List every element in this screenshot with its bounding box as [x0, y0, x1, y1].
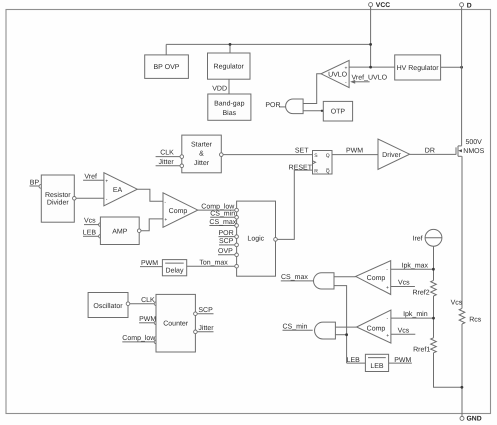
op-amp Comp Ipk_min: [357, 310, 391, 343]
wire Vref_UVLO arrow: [350, 73, 387, 83]
svg-text:POR: POR: [265, 102, 280, 109]
wire top Comp output to CS_max gate: [334, 276, 356, 278]
pin GND: [460, 415, 482, 422]
svg-text:UVLO: UVLO: [328, 71, 348, 78]
wire CS_min gate lower input from LEB: [335, 334, 346, 336]
svg-text:Bias: Bias: [222, 109, 236, 117]
wire LEB into AMP: [83, 229, 102, 238]
resistor Rref1: [413, 338, 436, 354]
svg-text:Delay: Delay: [166, 266, 184, 274]
svg-text:LEB: LEB: [83, 229, 97, 236]
wire HV Regulator to D rail: [441, 66, 462, 68]
wire OVP stub to Logic: [218, 248, 235, 255]
op-amp Comp Ipk_max: [356, 261, 391, 295]
wire Vcs stub bottom Comp: [391, 327, 415, 334]
wire CS_min stub to Logic: [210, 210, 235, 218]
svg-text:Iref: Iref: [413, 234, 423, 242]
wire VDD net: [212, 79, 229, 94]
wire PWM net to Driver: [332, 148, 378, 155]
wire Comp_low stub into Counter: [122, 334, 158, 344]
svg-text:+: +: [386, 285, 389, 291]
svg-text:R: R: [314, 169, 318, 175]
svg-text:Vcs: Vcs: [84, 218, 96, 225]
wire Ton_max from Delay to Logic: [187, 260, 235, 267]
svg-text:Vref_UVLO: Vref_UVLO: [352, 73, 388, 81]
svg-text:SET: SET: [295, 148, 309, 155]
svg-text:Oscillator: Oscillator: [93, 302, 123, 310]
wire CS_max gate lower input from LEB: [334, 286, 347, 364]
svg-text:Driver: Driver: [382, 151, 401, 159]
svg-text:Comp: Comp: [367, 326, 386, 333]
svg-text:Comp: Comp: [169, 208, 188, 215]
svg-text:CS_max: CS_max: [209, 219, 236, 226]
svg-text:BP OVP: BP OVP: [154, 64, 180, 71]
wire D rail: [461, 7, 463, 146]
block LEB: [365, 354, 388, 371]
block Starter &amp; Jitter: [182, 135, 222, 173]
wire Rref2 to Rref1: [433, 296, 435, 338]
svg-text:Q̅: Q̅: [326, 168, 330, 175]
wire PWM into Delay: [140, 260, 162, 267]
gate CS_min AND: [315, 322, 336, 339]
svg-text:Jitter: Jitter: [159, 158, 175, 166]
wire bottom Comp output to CS_min gate: [335, 326, 356, 328]
wire AMP output to Comp: [137, 219, 163, 233]
wire PWM stub into Counter: [139, 316, 158, 325]
svg-text:CS_max: CS_max: [281, 274, 308, 281]
svg-text:OVP: OVP: [218, 248, 233, 255]
wire Ipk_max net: [391, 261, 434, 269]
node LEB branch junction: [345, 333, 348, 336]
wire drop to Regulator: [229, 44, 231, 53]
op-amp Driver: [378, 139, 410, 169]
wire SET net: [220, 148, 313, 157]
wire drop to BP OVP: [165, 44, 167, 55]
svg-text:CS_min: CS_min: [210, 210, 235, 218]
svg-text:+: +: [345, 65, 348, 71]
wire Jitter stub out of Counter: [194, 324, 215, 334]
svg-text:&: &: [199, 151, 204, 158]
wire source rail down to GND: [461, 156, 463, 308]
svg-text:Ton_max: Ton_max: [199, 260, 228, 267]
svg-text:Band-gap: Band-gap: [214, 99, 244, 107]
wire RESET net: [277, 164, 312, 239]
svg-text:Jitter: Jitter: [194, 159, 210, 167]
wire DR net to NMOS gate: [410, 148, 456, 155]
svg-text:SCP: SCP: [198, 307, 213, 314]
svg-text:D: D: [467, 2, 472, 9]
block Oscillator: [88, 293, 128, 318]
svg-text:Jitter: Jitter: [198, 324, 214, 332]
svg-text:LEB: LEB: [347, 357, 361, 364]
svg-text:Vcs: Vcs: [451, 299, 463, 306]
node VCC bus junction: [369, 43, 372, 46]
op-amp EA: [104, 173, 137, 206]
wire UVLO plus input to HV Regulator: [349, 66, 395, 68]
wire CS_max stub to Logic: [209, 219, 236, 226]
block BP OVP: [145, 55, 189, 79]
svg-text:Regulator: Regulator: [214, 63, 245, 71]
svg-text:PWM: PWM: [141, 260, 158, 267]
svg-text:EA: EA: [113, 187, 123, 194]
node OTP input dot: [321, 110, 323, 112]
wire SCP stub out of Counter: [194, 307, 214, 316]
gate POR AND: [265, 99, 303, 114]
svg-text:VDD: VDD: [212, 86, 227, 93]
block Counter: [156, 294, 195, 352]
svg-text:OTP: OTP: [331, 109, 346, 116]
node VCC to UVLO junction: [369, 66, 372, 69]
wire Vref into EA: [83, 172, 104, 180]
resistor Rref2: [413, 280, 437, 296]
wire Ipk_min net: [391, 310, 434, 318]
op-amp Comp: [163, 193, 198, 228]
svg-text:BP: BP: [30, 179, 40, 186]
wire LEB label net: [347, 357, 366, 364]
svg-text:+: +: [164, 217, 167, 223]
svg-text:Ipk_min: Ipk_min: [403, 310, 428, 318]
wire Jitter stub into Starter: [156, 158, 184, 168]
svg-text:Comp_low: Comp_low: [122, 334, 156, 342]
wire Iref to Rref2: [433, 246, 435, 280]
block OTP: [323, 101, 352, 121]
wire CS_max gate output: [281, 274, 314, 281]
svg-text:500V: 500V: [466, 139, 483, 146]
svg-text:Comp: Comp: [367, 275, 386, 282]
wire POR stub to Logic: [219, 230, 235, 237]
svg-text:DR: DR: [425, 148, 435, 155]
block AMP: [100, 217, 139, 245]
node D rail junction: [460, 66, 463, 69]
svg-text:GND: GND: [467, 415, 482, 422]
flip-flop latch: [313, 151, 333, 175]
svg-text:Q: Q: [326, 153, 330, 159]
svg-text:Comp_low: Comp_low: [201, 202, 235, 210]
svg-text:CS_min: CS_min: [283, 323, 308, 331]
svg-text:+: +: [105, 179, 108, 185]
pin BP: [30, 179, 43, 188]
svg-text:Vcs: Vcs: [398, 280, 410, 287]
wire SCP stub to Logic: [219, 238, 235, 245]
svg-text:CLK: CLK: [160, 150, 174, 157]
wire PWM stub out of LEB: [389, 357, 412, 364]
svg-text:NMOS: NMOS: [463, 148, 484, 155]
wire EA output to Comp: [137, 189, 163, 201]
block Delay: [162, 260, 186, 276]
svg-text:Rcs: Rcs: [469, 316, 482, 323]
wire Rref1 to ground rail: [434, 353, 462, 388]
transistor 500V NMOS: [456, 139, 485, 156]
wire Oscillator CLK to Counter: [126, 297, 158, 306]
svg-text:RESET: RESET: [289, 164, 313, 171]
wire Comp_low to Logic: [198, 202, 236, 210]
wire Vcs into AMP: [84, 218, 102, 227]
svg-text:PWM: PWM: [346, 148, 363, 155]
gate CS_max AND: [314, 273, 335, 289]
svg-text:POR: POR: [219, 230, 234, 237]
wire top distribution bus: [166, 43, 370, 45]
wire Resistor Divider output to EA: [73, 197, 104, 201]
svg-text:SCP: SCP: [219, 238, 234, 245]
svg-text:Rref2: Rref2: [413, 289, 430, 297]
wire VCC rail: [370, 7, 372, 68]
wire UVLO output down to POR gate: [303, 74, 321, 104]
node Ipk_min junction: [432, 317, 435, 320]
svg-text:Vcs: Vcs: [398, 327, 410, 334]
svg-text:PWM: PWM: [394, 357, 411, 364]
node Ipk_max junction: [432, 268, 435, 271]
svg-text:LEB: LEB: [370, 363, 384, 370]
pin VCC: [369, 2, 391, 9]
wire CLK stub into Starter: [156, 150, 184, 159]
block Resistor Divider: [41, 175, 74, 222]
svg-text:VCC: VCC: [376, 2, 390, 9]
svg-text:Divider: Divider: [47, 199, 69, 207]
block Regulator: [208, 53, 251, 79]
pin D: [460, 2, 472, 9]
svg-text:CLK: CLK: [141, 297, 155, 304]
svg-text:HV Regulator: HV Regulator: [397, 64, 440, 72]
svg-text:Starter: Starter: [191, 141, 213, 148]
wire CS_min gate output: [283, 323, 313, 331]
svg-text:+: +: [386, 333, 389, 339]
svg-text:Counter: Counter: [163, 320, 189, 327]
svg-text:Rref1: Rref1: [413, 345, 430, 353]
node ground rail junction: [461, 386, 464, 389]
svg-text:PWM: PWM: [139, 316, 156, 323]
block HV Regulator: [395, 55, 441, 80]
resistor Rcs: [451, 299, 482, 324]
svg-text:Logic: Logic: [247, 235, 264, 243]
svg-text:Vref: Vref: [84, 172, 97, 180]
svg-text:AMP: AMP: [112, 229, 128, 236]
svg-text:Resistor: Resistor: [45, 191, 71, 199]
block Band-gap Bias: [208, 94, 251, 120]
block Logic: [235, 201, 278, 276]
wire Vcs stub top Comp: [391, 280, 415, 287]
current source Iref: [413, 229, 442, 246]
node Regulator bus junction: [229, 43, 232, 46]
op-amp UVLO: [321, 60, 349, 87]
svg-text:Ipk_max: Ipk_max: [402, 261, 429, 269]
wire POR gate lower input to OTP: [303, 110, 323, 112]
